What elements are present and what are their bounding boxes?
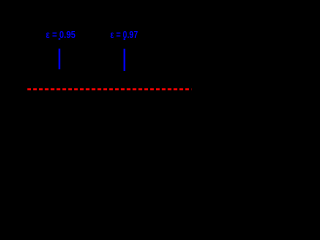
left leader line (dashed) <box>58 38 60 69</box>
svg-text:ε = 0.95: ε = 0.95 <box>46 30 76 41</box>
right leader line (dashed) <box>123 38 125 71</box>
red dashed threshold line <box>27 88 191 90</box>
